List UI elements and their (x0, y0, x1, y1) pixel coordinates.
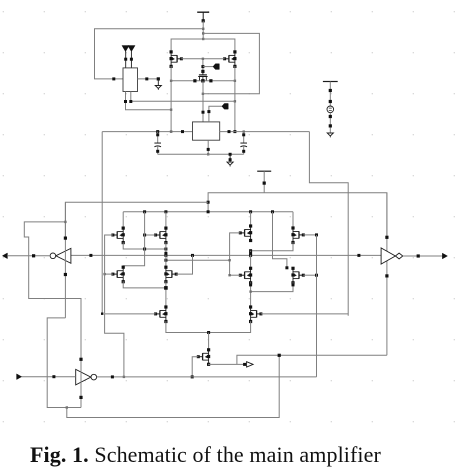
wire mirror loop top (171, 39, 235, 52)
power symbol VDD bar (top) (197, 12, 209, 20)
inverter U1 (left, output west) (50, 248, 71, 263)
wire Ma drain to node x144.6 (123, 242, 167, 250)
voltage source V1 column (323, 82, 338, 134)
wire Md gate east (303, 233, 318, 236)
port IN (bottom left) (17, 374, 22, 380)
node VDD stem with junctions (202, 19, 205, 40)
wire M1 drain column down (170, 66, 172, 133)
node right output junction (249, 282, 252, 306)
wire A inverter supply y202.2 (65, 202, 208, 238)
wire net vbias left horizontal y131.6 (102, 130, 192, 133)
transistor Mb (154, 227, 167, 245)
transistor Mh (291, 267, 304, 285)
power symbol double supply triangles above block B1 (122, 46, 135, 68)
wire Mf gate east up to main wire (176, 255, 192, 274)
wire Mk drain drop (208, 333, 210, 350)
wire Mh drain staircase to right output node (251, 282, 295, 291)
block B2 (cmfb sub-circuit) (193, 122, 220, 140)
transistor Ma (111, 227, 124, 245)
ground G3 below V1 (327, 133, 333, 136)
wire VSS bottom loop (67, 354, 281, 418)
wire U3 pins vertical (79, 358, 82, 408)
wire Mc source drop (250, 212, 252, 226)
transistor Mc (239, 224, 252, 242)
wire left inner column (164, 242, 167, 260)
wire Mk source branch to vss rail (237, 355, 387, 364)
wire VDD to bias block loop (left) (95, 29, 204, 79)
wire Mj gate east to bias loop (261, 313, 348, 315)
transistor M3 (bias center, rotated) (198, 70, 207, 81)
wire Mg gate west (228, 274, 240, 276)
wire M1 gate to center (181, 58, 203, 60)
wire Ma gate west (105, 234, 113, 236)
transistor Mg (239, 251, 252, 285)
wire Md source drop (292, 212, 294, 228)
wire Mi gate west (101, 313, 156, 315)
ground G1 (155, 77, 161, 90)
wire Mk source to net flag (209, 363, 247, 366)
transistor M1 (bias mirror PMOS left) (170, 50, 183, 68)
wire Md drain to node (249, 242, 293, 252)
wire Mc gate west to VL3 (230, 233, 241, 276)
wire bulk drop x272.5 (273, 212, 289, 269)
wire bulk drop x144.6 (123, 212, 144, 267)
wire cross couple y260.2 (164, 259, 230, 262)
wire VDD to right loop (202, 33, 260, 95)
pin B2 bottom wire (207, 140, 210, 155)
transistor Md (291, 226, 304, 244)
wire center column to block B2 (202, 81, 205, 122)
wire Mb gate west (143, 234, 156, 237)
wire feedback rise to Md Mh gates (316, 235, 318, 377)
wire ground net y154.3 (158, 153, 244, 156)
pin B1 bottom-right wire (129, 92, 235, 104)
wire Me drain staircase to left output node (123, 281, 166, 288)
wire VL2 gates vertical (105, 235, 113, 314)
pin B1 right wire to ground (138, 77, 159, 80)
pin B1 bottom-left wire (124, 92, 171, 110)
buffer U2 (right, output east) (381, 248, 403, 264)
caption Fig. 1 (30, 442, 381, 468)
wire Mk gate to feedback net (191, 357, 199, 379)
wire bias feed to right side loop (309, 132, 348, 316)
wire Mb source drop (165, 212, 167, 228)
wire M2 gate to center (203, 58, 225, 60)
transistor M2 (bias mirror PMOS right) (223, 50, 236, 68)
wire B2 right pin east y131.6 (220, 130, 310, 133)
port OUT+ (right) (442, 253, 447, 259)
wire U2 output to port (403, 254, 443, 257)
wire tail node y332.5 (166, 321, 251, 334)
wire bias rail y81 (170, 79, 236, 82)
power symbol VDD bar (mid) (257, 171, 271, 193)
wire VDD distribution y192.7 (207, 193, 387, 238)
node left output junction (164, 281, 168, 306)
wire Me gate west (103, 273, 113, 275)
wire M2 drain column down (233, 66, 236, 133)
wire Mh gate east (303, 274, 318, 277)
wire main horizontal y255.4 (71, 254, 381, 257)
pin B2 top-right with net flag (207, 104, 228, 122)
wire VL1 long vertical left (101, 132, 103, 314)
transistor Me (111, 266, 124, 284)
wire VDD rail y211.8 (123, 210, 293, 213)
wire Ma source drop (122, 212, 124, 228)
transistor Mj (249, 305, 262, 323)
wire U3 supply feed jog (24, 222, 81, 359)
wire U3 input from port (21, 375, 75, 378)
wire U1 output to port (8, 254, 50, 257)
net flag tail (open) (247, 362, 254, 367)
inverter U3 (bottom left, output east) (76, 369, 97, 385)
wire buffer pins vertical (385, 193, 388, 356)
block B1 (bias sub-circuit) (123, 68, 138, 92)
transistor Mf (164, 260, 177, 284)
wire VL2 down to U3 output (105, 314, 126, 378)
port OUT- (left) (2, 253, 7, 259)
ground G2 (227, 154, 233, 166)
pin B1 left (112, 77, 115, 80)
wire U3 output / feedback net y376.9 (97, 375, 317, 378)
wire U1 supply pins vertical (64, 202, 67, 318)
capacitor C2 (240, 132, 247, 155)
wire U1 vss chain (47, 318, 81, 409)
capacitor C1 (154, 132, 161, 155)
transistor Mi (154, 305, 167, 323)
transistor Mk (197, 348, 210, 366)
node gate tie junction (201, 58, 204, 72)
net flag vb1 (203, 64, 219, 70)
